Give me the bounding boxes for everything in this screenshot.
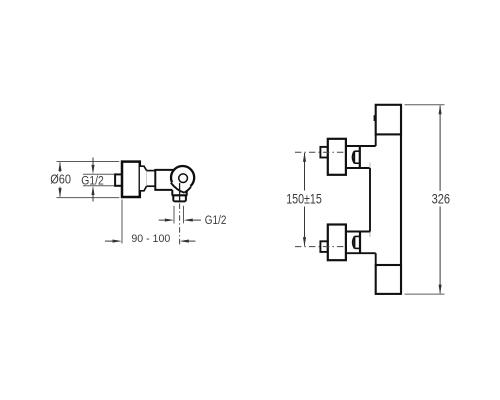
wall stub (115, 174, 122, 185)
nut2 arc (353, 236, 355, 248)
svg-text:G1/2: G1/2 (81, 175, 104, 188)
nut1 vertical (353, 151, 355, 163)
faint step lower (369, 232, 371, 238)
stub1 (320, 147, 327, 158)
dim 90-100 right arrow (179, 240, 189, 243)
boss2 bottom (346, 252, 375, 254)
column left edge upper (375, 134, 377, 146)
funnel left curve (171, 183, 184, 193)
dim Ø60 line bottom (59, 187, 61, 197)
boss2 face (359, 232, 361, 254)
dim 326 line upper (439, 106, 441, 191)
svg-text:G1/2: G1/2 (205, 214, 227, 227)
collar bottom edge (140, 186, 147, 191)
dim 150 arrow down (303, 237, 306, 247)
column right edge (400, 105, 402, 294)
dim 150 line upper (304, 153, 306, 191)
dim G1/2 stub line bottom (92, 194, 94, 202)
dim 90-100 left tail (105, 240, 113, 242)
dim 150 arrow up (303, 152, 306, 162)
extension line outlet right (G1/2 outlet) (183, 206, 185, 224)
collar top edge (140, 166, 147, 170)
extension line outlet left (G1/2 outlet) (173, 206, 175, 224)
handle inner circle (179, 174, 188, 183)
nut1 arc (352, 151, 354, 163)
boss1 bottom (346, 167, 370, 169)
dim G1/2 stub arrow up (91, 186, 94, 195)
svg-text:Ø60: Ø60 (50, 172, 71, 187)
outlet left vertical (171, 190, 173, 196)
bottom cap (376, 265, 401, 294)
body fill (155, 170, 176, 190)
nut2 bottom (355, 247, 361, 249)
extension line column bottom (326) (405, 293, 445, 295)
outlet centerline dash-dot lower part (179, 204, 181, 245)
dim G1/2 outlet left arrow (165, 219, 174, 222)
nut2 top (355, 235, 361, 237)
stub2 (320, 241, 327, 252)
union block2 (328, 225, 346, 261)
faint step upper (369, 163, 371, 169)
boss1 face (359, 146, 361, 168)
dim 90-100 right tail (189, 240, 196, 242)
dim Ø60 arrow up (58, 162, 61, 172)
dim 150 line lower (304, 207, 306, 246)
dim 326 line lower (439, 207, 441, 294)
svg-text:150±15: 150±15 (286, 191, 322, 207)
neck fill (147, 171, 156, 187)
extension line flange top (Ø60) (57, 161, 120, 163)
wall flange (122, 162, 140, 197)
nut1 top (354, 150, 360, 152)
outlet right vertical (186, 189, 188, 195)
column mid left edge (369, 168, 371, 232)
neck bottom edge (147, 185, 156, 187)
dim Ø60 line top (59, 163, 61, 173)
extension line flange bottom (Ø60) (57, 197, 120, 199)
outlet centerline solid segment (179, 183, 181, 202)
top cap screw blob (374, 115, 377, 121)
extension line flange left edge (90-100) (121, 200, 123, 244)
dim Ø60 arrow down (58, 188, 61, 198)
svg-text:326: 326 (432, 191, 450, 207)
boss2 top (346, 231, 370, 233)
extension line stub bottom (G1/2) (83, 185, 119, 187)
collar fill (140, 166, 147, 191)
funnel right curve (184, 187, 191, 193)
column left edge lower (375, 253, 377, 265)
outlet nut (173, 195, 186, 201)
dim 326 arrow down (439, 285, 442, 295)
dim G1/2 outlet right arrow (184, 219, 193, 222)
top cap (376, 105, 401, 135)
boss1 top (346, 145, 375, 147)
funnel erase (171, 181, 191, 193)
axis1 dash-dot (295, 151, 345, 153)
axis2 dash-dot (295, 246, 345, 248)
dim G1/2 outlet left tail (159, 219, 166, 221)
nut2 vertical (354, 236, 356, 248)
union block1 (328, 139, 346, 175)
handle circle (171, 166, 194, 189)
collar/neck faint separator (146, 171, 148, 187)
dim 90-100 left arrow (113, 240, 123, 243)
outlet lip (172, 194, 188, 196)
extension line stub top (G1/2) (83, 173, 119, 175)
dim 326 arrow up (439, 105, 442, 115)
body outline (155, 170, 176, 190)
svg-text:90 - 100: 90 - 100 (131, 233, 170, 245)
dim G1/2 stub arrow down (91, 165, 94, 174)
neck top edge (147, 170, 156, 172)
extension line column top (326) (405, 104, 445, 106)
dim G1/2 outlet right tail (193, 219, 201, 221)
nut1 bottom (354, 162, 360, 164)
dim G1/2 stub line top (92, 158, 94, 167)
